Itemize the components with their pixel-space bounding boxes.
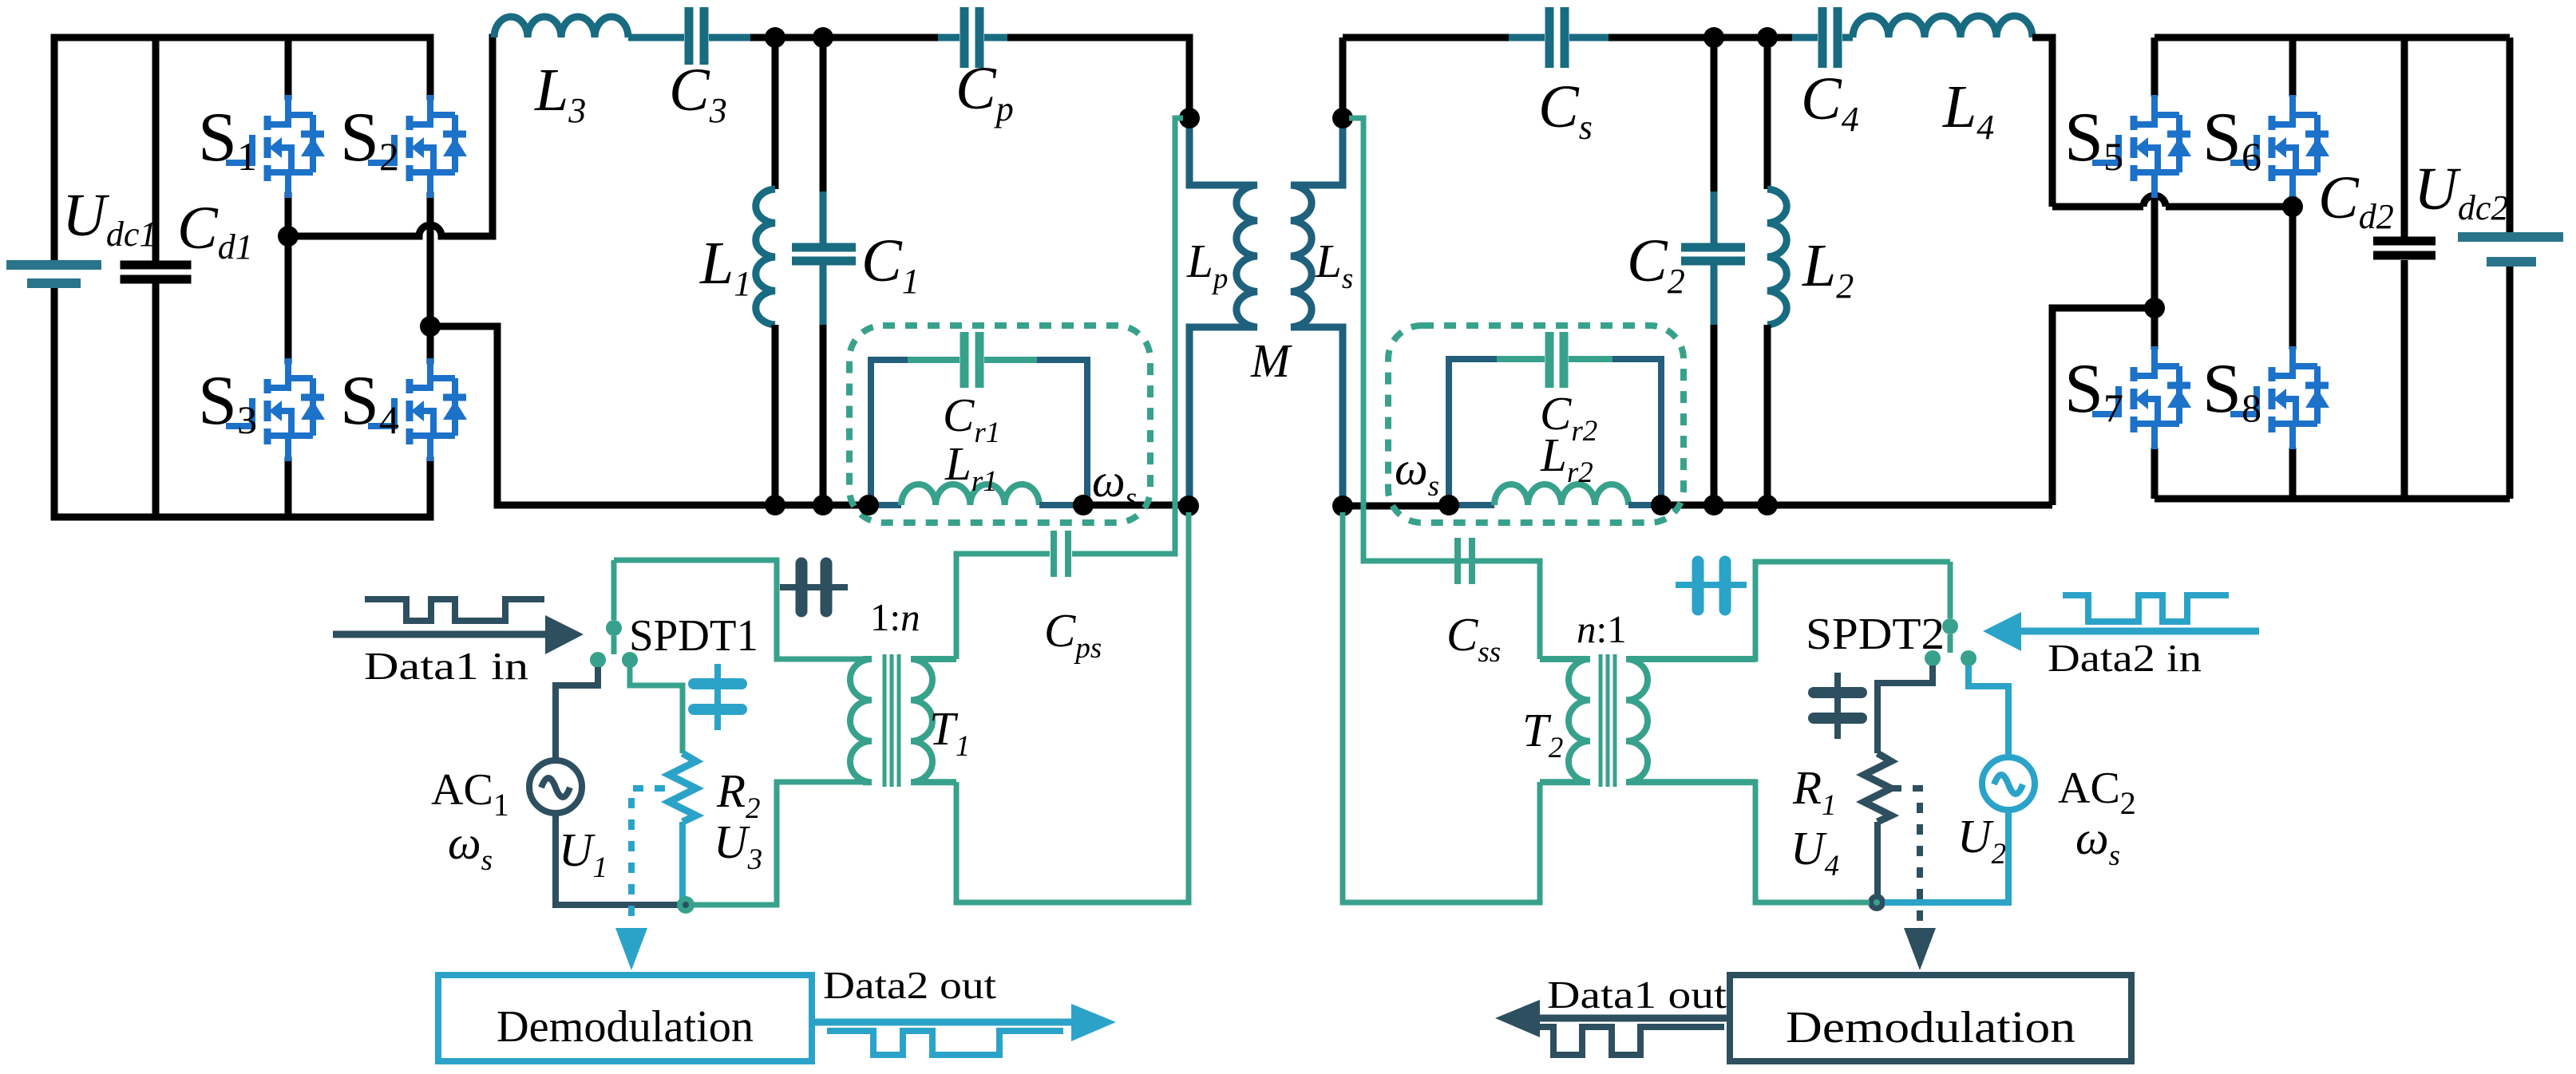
transistor S8	[2230, 346, 2329, 449]
transistor S2	[368, 95, 467, 198]
inductor Lr2	[1494, 484, 1628, 505]
wire: Cp to Lp top	[1007, 38, 1189, 118]
switch SPDT2 throw terminal left	[1925, 650, 1941, 666]
capacitor Cr2	[1549, 332, 1564, 388]
node B: S2-S4 midpoint junction	[420, 316, 441, 337]
node: C2 bottom junction	[1703, 495, 1724, 515]
Data2 in arrow line	[2019, 628, 2259, 635]
wire: Cr1 loop right side	[1037, 360, 1087, 505]
wire: Lr1 left stub	[869, 502, 901, 508]
transistor S1	[226, 95, 325, 198]
wire: SPDT1 left throw to AC1	[556, 667, 598, 760]
wire: R2 to bottom junction	[679, 822, 686, 905]
svg-text:SPDT1: SPDT1	[629, 611, 758, 661]
wire: leg1 segments	[285, 38, 292, 517]
node: Ls bottom junction	[1332, 496, 1353, 516]
switch SPDT2 pole wire	[1948, 562, 1953, 618]
node: L1 top junction	[765, 27, 785, 48]
source AC1	[529, 760, 582, 813]
capacitor Cps	[1054, 531, 1068, 577]
switch SPDT2 throw terminal right	[1961, 650, 1977, 666]
svg-text:Data1 out: Data1 out	[1547, 973, 1727, 1017]
wire: Ls bottom rail to right tank	[1343, 505, 2052, 506]
node: S5-S7 midpoint junction	[2144, 298, 2165, 318]
wire: SPDT1 pole up and over to T1 primary top	[614, 560, 863, 659]
wire: Cs to C2/L2 junction	[1569, 34, 1609, 41]
wire: Cr1 loop top green segments	[908, 357, 1037, 363]
demodulation box 1	[438, 975, 812, 1061]
resistor R1	[1864, 753, 1891, 822]
node: C2 top junction	[1703, 27, 1724, 48]
Data1 out arrowhead	[1495, 1000, 1540, 1037]
wire: bottom rail to T1 primary	[693, 782, 863, 905]
transistor S6	[2230, 95, 2329, 198]
resistor R2	[669, 753, 696, 822]
capacitor Css	[1458, 538, 1472, 584]
svg-text:Data2 out: Data2 out	[823, 963, 996, 1007]
wire: leg2 segments	[427, 38, 434, 517]
inductor L4	[1853, 16, 2032, 38]
capacitor icon (modulation cap, light blue right)	[1676, 562, 1747, 610]
svg-text:Demodulation: Demodulation	[1786, 1003, 2075, 1052]
transistor S4	[368, 358, 467, 461]
wire: leg2 segments (S6/S8)	[2289, 38, 2297, 499]
Data1 in arrowhead	[545, 615, 584, 654]
Data2 in arrowhead	[1983, 612, 2021, 651]
wire: SPDT2 left throw to R1	[1878, 665, 1933, 753]
battery Udc2	[2458, 38, 2563, 499]
switch SPDT1 pole terminal	[606, 620, 622, 636]
Data1 out arrow line	[1537, 1015, 1730, 1022]
switch SPDT1 throw terminal right	[622, 652, 638, 668]
capacitor icon (modulation cap, navy right)	[1814, 673, 1862, 739]
switch SPDT1 blade stub	[611, 636, 617, 654]
wire: right bridge bottom rail	[2155, 496, 2510, 503]
demodulation box 2	[1730, 975, 2131, 1061]
inductor Ls (secondary coil)	[1291, 118, 1343, 506]
inductor Lr1	[901, 484, 1039, 505]
transformer T2 core	[1601, 654, 1615, 787]
capacitor icon (modulation cap, navy)	[780, 563, 848, 611]
wire: node B rail down to resonant bottom rail	[430, 326, 497, 505]
switch SPDT1 throw terminal left	[590, 652, 606, 668]
svg-text:n:1: n:1	[1577, 607, 1627, 651]
capacitor icon (modulation cap, light blue)	[694, 664, 742, 730]
node: Ls top junction	[1332, 108, 1353, 128]
dashed arrowhead into demodulation	[615, 928, 647, 970]
wire: SPDT2 pole up and over to T2 primary top	[1626, 562, 1950, 659]
node: Lp bottom junction	[1178, 496, 1199, 516]
wire: L3 to C3	[628, 34, 684, 41]
node: bottom junction (green terminal)	[677, 896, 694, 914]
transistor S3	[226, 358, 325, 461]
wire: T1 secondary bottom to Lp bottom node	[956, 512, 1189, 902]
wire: Ls top lead black	[1339, 38, 1347, 118]
dashed boundary box (fs2 tank)	[1388, 326, 1684, 523]
wire: Lr2 left stub	[1449, 502, 1494, 508]
wire: Cr2 loop top green segments	[1497, 356, 1612, 362]
wire: bridge top rail	[54, 34, 430, 41]
wire: Cps to Lp top node	[1072, 118, 1183, 554]
wire: T1 secondary top to Cps	[956, 554, 1050, 659]
transformer T2 primary coil	[1626, 659, 1755, 782]
Data1 out square wave	[1536, 1027, 1724, 1055]
Data1 in square wave	[365, 599, 544, 621]
node: L2 bottom junction	[1757, 495, 1778, 515]
wire: AC1 to bottom rail	[556, 813, 679, 905]
wire: leg1 segments (S5/S7)	[2151, 38, 2159, 499]
capacitor Cd2	[2373, 38, 2436, 499]
wire: T2 secondary bottom to Ls bottom node	[1343, 512, 1540, 902]
source AC2	[1982, 757, 2035, 810]
dashed tap from R2 to demodulation	[631, 788, 665, 922]
wire: bridge bottom rail	[54, 514, 430, 521]
wire: Lr2 right stub	[1628, 502, 1661, 508]
wire: node A rail with hop over leg2	[288, 38, 493, 236]
wire: Ls top to Cs	[1343, 34, 1509, 41]
Data2 out arrow line	[815, 1019, 1074, 1026]
node: bottom junction right (navy)	[1868, 894, 1886, 911]
dashed arrowhead into demodulation right	[1904, 928, 1936, 970]
node A: S1-S3 midpoint junction	[278, 226, 299, 247]
wire: SPDT1 right throw to R2	[630, 667, 683, 753]
capacitor Cr1	[964, 332, 979, 388]
inductor Lp (primary coil)	[1189, 118, 1257, 506]
wire: bottom rail from node B to Lp bottom	[497, 502, 1189, 509]
svg-text:SPDT2: SPDT2	[1806, 610, 1945, 659]
switch SPDT2 blade stub	[1948, 634, 1953, 653]
switch SPDT1 pole wire	[611, 560, 617, 620]
capacitor Cd1	[125, 38, 187, 517]
capacitor C4	[1792, 7, 1853, 68]
node: S6-S8 midpoint junction	[2282, 196, 2303, 217]
transformer T1 primary coil	[850, 659, 872, 782]
capacitor Cp	[938, 7, 1007, 68]
wire: Css to Ls top node	[1349, 118, 1454, 561]
node: C1 top junction	[813, 27, 833, 48]
wire: Lr1 right stub	[1039, 502, 1083, 508]
transistor S5	[2092, 95, 2191, 198]
capacitor C1	[792, 38, 856, 505]
wire: right bridge top rail	[2155, 34, 2510, 41]
node: L2 top junction	[1757, 27, 1778, 48]
Data1 in arrow line	[333, 631, 548, 638]
svg-text:Demodulation: Demodulation	[497, 1002, 754, 1052]
wire: Cr2 loop left side	[1449, 359, 1497, 505]
wire: S5-S7 node rail down to tank bottom rail	[2052, 308, 2155, 505]
inductor L2	[1767, 38, 1787, 505]
transformer T1 core	[884, 654, 899, 787]
svg-text:Data1 in: Data1 in	[364, 644, 528, 688]
capacitor C3	[689, 7, 704, 65]
node: tank2 left junction	[1438, 495, 1459, 515]
wire: SPDT2 right throw to AC2	[1969, 665, 2008, 758]
wire: Cr2 loop right side	[1612, 359, 1661, 505]
switch SPDT2 pole terminal	[1942, 618, 1958, 634]
svg-text:Data2 in: Data2 in	[2048, 636, 2202, 680]
transformer T1 secondary coil	[911, 659, 956, 782]
wire: R1 to bottom junction	[1874, 822, 1881, 902]
node: C1 bottom junction	[813, 495, 833, 515]
svg-text:M: M	[1250, 334, 1292, 387]
Data2 out arrowhead	[1071, 1004, 1116, 1041]
dashed boundary box (fs1 tank)	[849, 326, 1150, 523]
node: tank2 right junction	[1651, 495, 1672, 515]
battery Udc1	[11, 38, 97, 517]
inductor L3	[494, 17, 628, 38]
wire: T2 secondary top to Css	[1454, 561, 1540, 659]
Data2 out square wave	[827, 1031, 1063, 1055]
capacitor C2	[1681, 38, 1745, 505]
transistor S7	[2092, 346, 2191, 449]
wire: bottom rail to T2 primary	[1626, 782, 1870, 902]
wire: L4 down to S6-S8 node with hop over leg1	[2032, 38, 2293, 207]
svg-text:1:n: 1:n	[870, 595, 920, 639]
transformer T2 secondary coil	[1540, 659, 1590, 782]
node: tank right junction	[1073, 495, 1094, 515]
Data2 in square wave	[2063, 595, 2229, 622]
dashed tap from R1 to demodulation	[1891, 788, 1920, 922]
wire: AC2 to bottom rail	[1885, 809, 2008, 902]
node: L1 bottom junction	[765, 495, 785, 515]
wire hop arc at leg2	[419, 225, 441, 236]
node: Lp top junction	[1179, 108, 1200, 128]
wire: Cr1 loop left side	[871, 360, 908, 505]
inductor L1	[756, 38, 775, 505]
wire: C3 to L1/C1 junction	[709, 34, 750, 41]
capacitor Cs	[1549, 7, 1565, 68]
node: tank left junction	[858, 495, 879, 515]
wire hop arc at leg1	[2143, 195, 2166, 207]
